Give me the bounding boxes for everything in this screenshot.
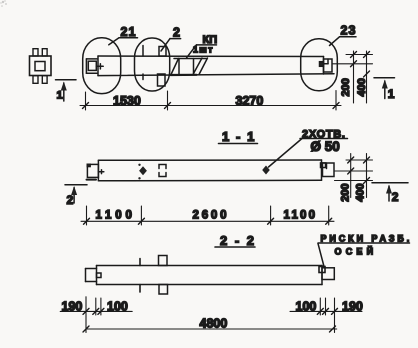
- svg-text:1: 1: [57, 90, 63, 102]
- svg-text:2600: 2600: [193, 210, 230, 222]
- interior details 1-1: [138, 164, 269, 180]
- svg-text:1: 1: [388, 87, 395, 101]
- label 23 leader: [340, 36, 357, 38]
- svg-text:400: 400: [355, 183, 367, 201]
- svg-text:2: 2: [392, 190, 399, 204]
- svg-text:2 - 2: 2 - 2: [220, 233, 256, 248]
- right connector 1-1: [321, 163, 335, 177]
- tabs at ellipse 2 (top and bottom): [143, 46, 166, 87]
- svg-text:4800: 4800: [200, 317, 228, 331]
- svg-text:200: 200: [339, 183, 351, 201]
- section arrow 2 (right of 1-1): [372, 183, 408, 201]
- left end connector (top view): [86, 59, 103, 73]
- ladder detail KP: [171, 58, 208, 75]
- label KP/1sht: [187, 45, 217, 58]
- svg-text:190: 190: [62, 300, 83, 314]
- svg-text:100: 100: [107, 300, 128, 314]
- right end connector (top view): [320, 59, 333, 72]
- left connector 1-1: [87, 164, 104, 180]
- tabs and axis marks 2-2: [140, 256, 168, 295]
- svg-text:200: 200: [340, 78, 352, 96]
- label 2 leader: [170, 38, 181, 40]
- left dims 190/100 (2-2): [60, 297, 132, 333]
- right connector 2-2: [319, 267, 334, 280]
- svg-text:2: 2: [67, 193, 74, 207]
- dims 1100/2600/1100: [81, 206, 334, 225]
- label 2 holes d50: [269, 139, 348, 168]
- dimension line 1530 / 3270: [80, 91, 341, 111]
- section arrow 2 (left of 1-1): [65, 185, 87, 203]
- svg-text:1100: 1100: [96, 210, 136, 222]
- svg-text:21: 21: [121, 25, 137, 39]
- right dims 100/190 (2-2): [290, 298, 362, 333]
- svg-text:190: 190: [342, 300, 363, 314]
- svg-text:ОСЕЙ: ОСЕЙ: [335, 246, 378, 257]
- svg-text:100: 100: [296, 300, 317, 314]
- label RISKI RAZB OSEY: [318, 243, 410, 267]
- svg-text:1 - 1: 1 - 1: [222, 129, 256, 144]
- vertical dims 200/400 (1-1 right): [335, 154, 373, 198]
- label 21 leader: [119, 37, 138, 39]
- svg-text:400: 400: [356, 78, 368, 96]
- vertical dims 200/400 (top view right): [333, 51, 373, 103]
- beam outline 1-1: [98, 160, 321, 181]
- svg-text:23: 23: [341, 24, 357, 38]
- left connector 2-2: [86, 269, 102, 282]
- svg-text:РИСКИ РАЗБ.: РИСКИ РАЗБ.: [321, 233, 413, 243]
- svg-text:1530: 1530: [113, 94, 141, 108]
- beam outline 2-2: [97, 266, 323, 285]
- dim 4800: [83, 326, 337, 332]
- svg-text:Ø 50: Ø 50: [311, 139, 340, 154]
- detail ellipse 23: [301, 39, 338, 91]
- svg-text:3270: 3270: [236, 94, 264, 108]
- svg-text:2: 2: [173, 26, 180, 40]
- label 2-2: [215, 246, 255, 248]
- top view beam outline: [98, 56, 334, 76]
- section arrow 1 (left): [56, 80, 77, 101]
- detail ellipse 21: [83, 38, 121, 94]
- detail ellipse 2: [135, 38, 170, 91]
- label 1-1: [219, 143, 258, 145]
- column cross-section symbol: [30, 49, 52, 84]
- svg-text:1шт: 1шт: [193, 45, 214, 55]
- section arrow 1 (right): [374, 78, 395, 99]
- svg-text:1100: 1100: [284, 210, 318, 222]
